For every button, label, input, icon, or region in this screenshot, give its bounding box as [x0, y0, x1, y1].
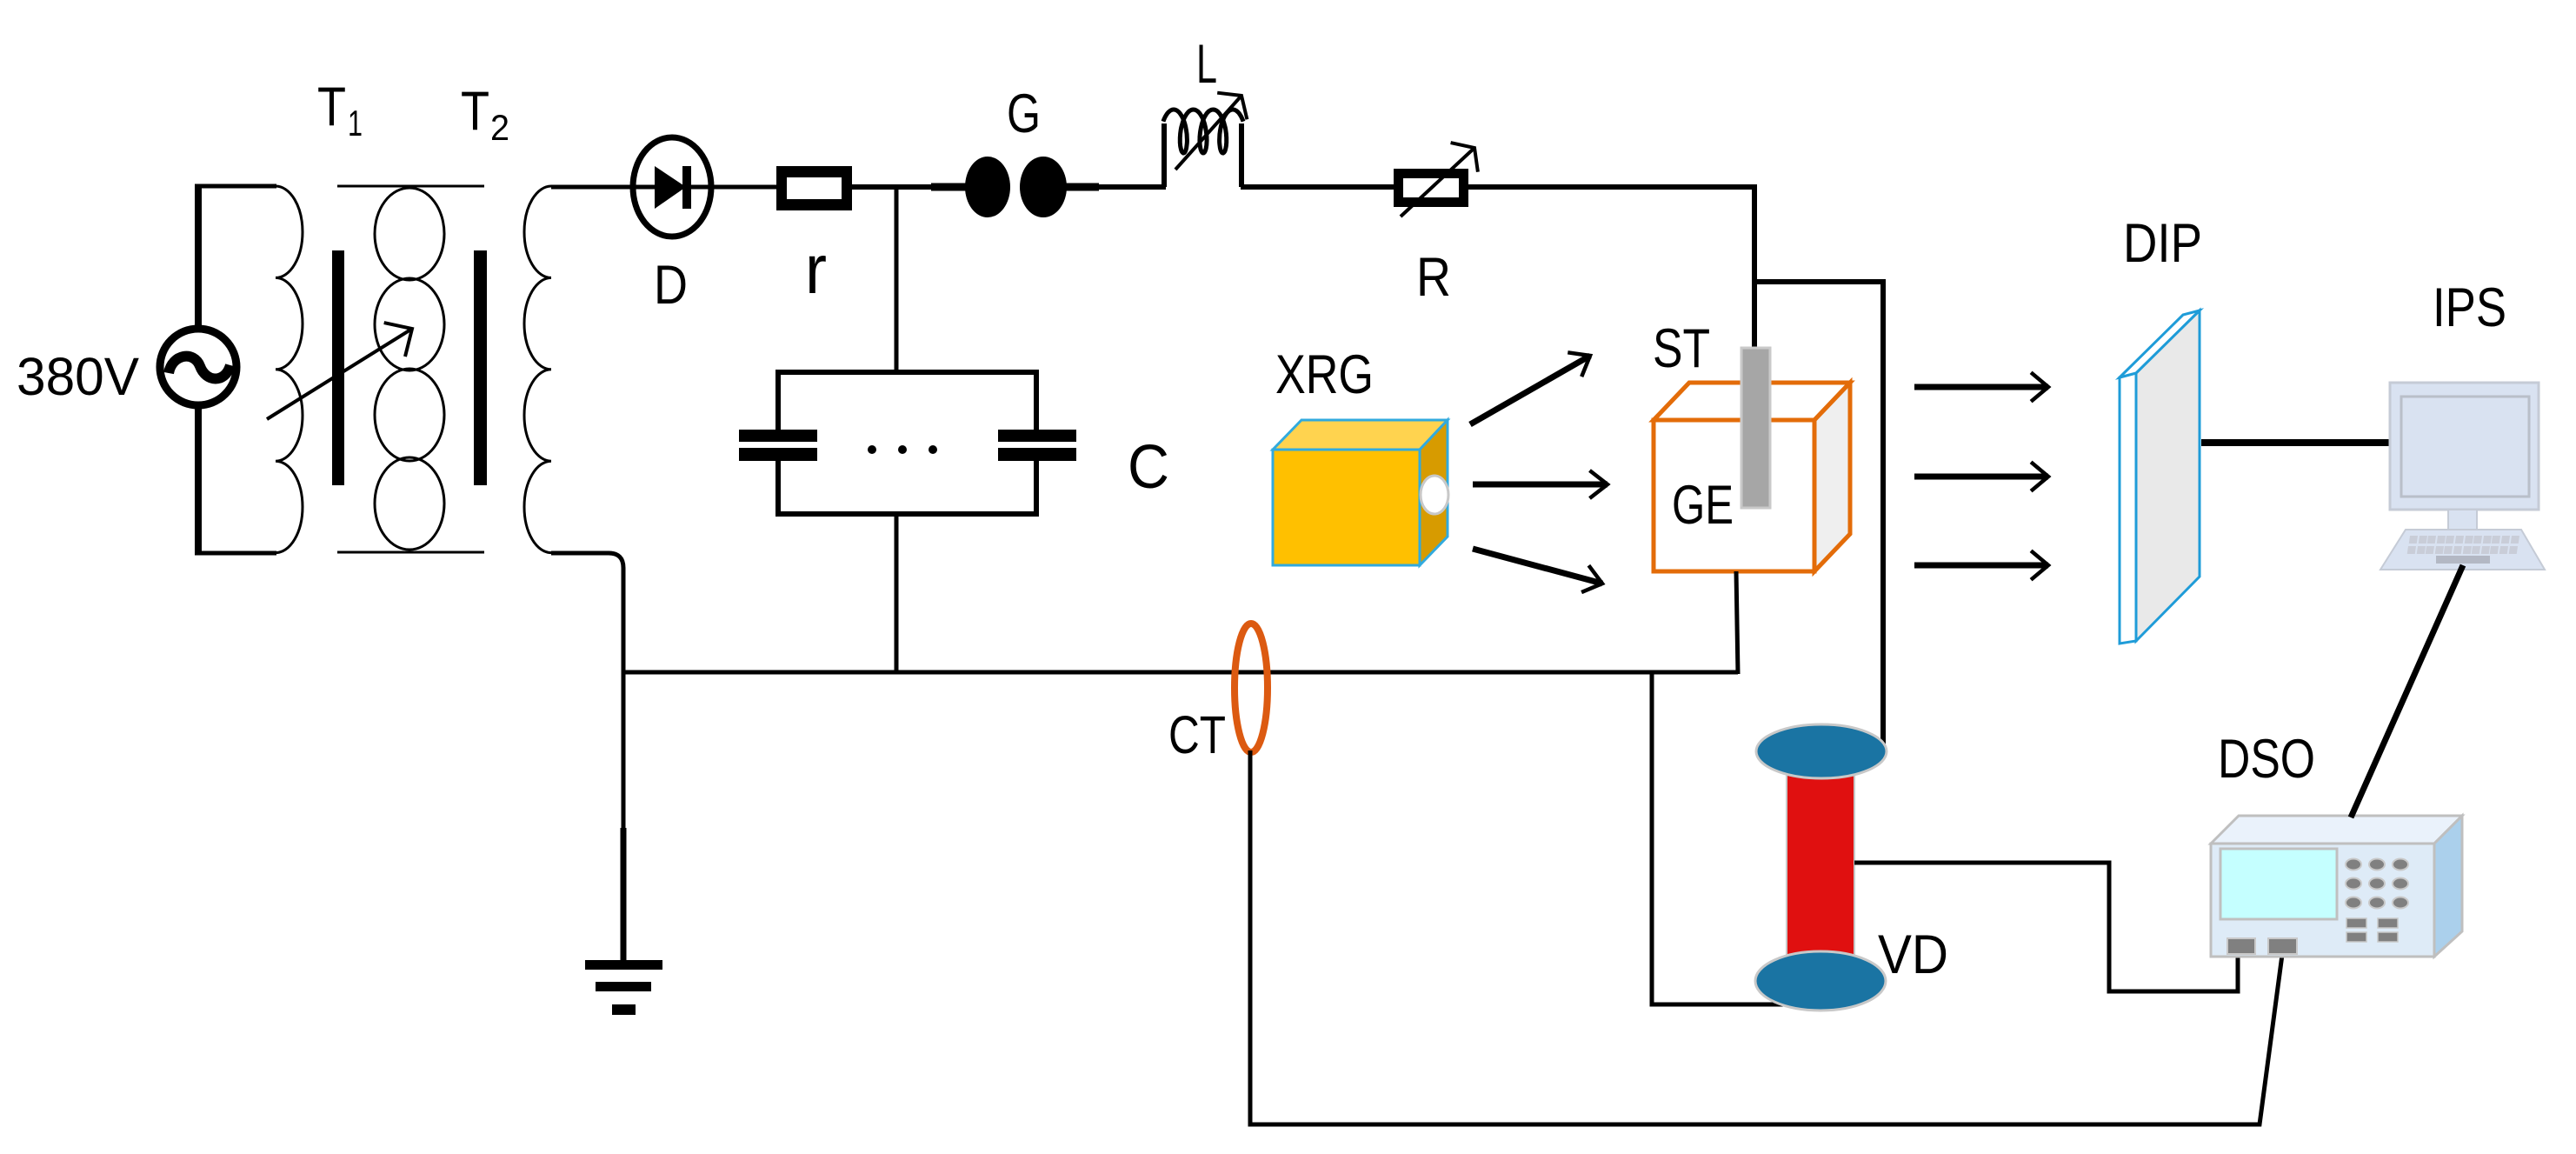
svg-text:L: L: [1196, 34, 1217, 95]
scattered x-ray arrow 3: [1914, 550, 2048, 579]
X-ray generator XRG front face: [1273, 450, 1420, 565]
DSO buttons: [2346, 859, 2361, 871]
wire: VD branch down: [1652, 672, 1821, 1004]
diode D triangle: [655, 166, 686, 209]
wire: capacitor bank to ground bus: [895, 514, 899, 672]
svg-text:GE: GE: [1672, 475, 1734, 536]
wire: R to ST electrode (top rail right): [1468, 187, 1754, 350]
svg-text:T: T: [317, 77, 346, 137]
spark gap G electrode 2: [1020, 157, 1067, 217]
transformer T1 primary winding: [276, 186, 303, 553]
inductor L right lead: [1239, 123, 1244, 187]
wire: L to resistor R: [1241, 184, 1395, 190]
svg-text:CT: CT: [1168, 705, 1226, 764]
capacitor Cn plates: [998, 430, 1076, 442]
svg-text:VD: VD: [1878, 924, 1948, 985]
IPS keyboard keys: [2409, 536, 2418, 544]
x-ray beam arrow upper: [1470, 352, 1590, 424]
svg-text:1: 1: [348, 103, 363, 143]
wire: T2 top to diode: [551, 185, 637, 190]
wire: DIP to IPS: [2201, 439, 2393, 446]
diode D cathode bar: [682, 166, 691, 209]
svg-text:T: T: [461, 81, 489, 142]
sample tank ST right face: [1814, 383, 1850, 571]
svg-text:G: G: [1007, 83, 1041, 144]
transformer middle winding coils: [375, 188, 444, 280]
computer IPS monitor: [2390, 383, 2539, 510]
oscilloscope DSO right face: [2434, 816, 2462, 957]
voltage divider VD bottom cap: [1755, 951, 1886, 1011]
X-ray generator XRG right face: [1420, 420, 1448, 565]
svg-text:IPS: IPS: [2433, 277, 2506, 338]
transformer T1 core bar: [332, 250, 344, 485]
DSO screen: [2220, 849, 2337, 919]
wire: VD tap to DSO channel 1: [1854, 863, 2238, 991]
wire: IPS to DSO: [2351, 565, 2463, 817]
svg-text:380V: 380V: [17, 347, 139, 406]
DSO BNC connector 2: [2268, 938, 2297, 954]
wire: T2 bottom to ground node: [551, 553, 623, 831]
wire: bottom jumper source to T1: [195, 551, 276, 556]
capacitor bank C outline bottom: [776, 511, 1039, 517]
diode D circle: [633, 137, 711, 237]
capacitor bank C outline top: [776, 370, 1039, 375]
svg-text:DSO: DSO: [2218, 729, 2315, 790]
AC source sine symbol: [169, 357, 230, 379]
capacitor C1 leads: [775, 370, 781, 431]
voltage divider VD body: [1787, 765, 1854, 955]
svg-text:R: R: [1416, 247, 1451, 308]
wire: ground bus horizontal: [622, 670, 1738, 675]
AC source 380V circle: [160, 329, 236, 405]
ellipsis dots between capacitors: [868, 445, 876, 454]
transformer T2 secondary winding: [524, 186, 551, 553]
wire: resistor r to spark gap G: [852, 184, 934, 190]
wire: branch to voltage divider: [1754, 282, 1883, 755]
capacitor Cn leads: [1034, 370, 1039, 431]
wire: top jumper source to T1: [195, 184, 276, 189]
wire: GE bottom to ground bus: [1736, 571, 1738, 674]
XRG window: [1421, 476, 1448, 514]
variable-resistor arrow through R: [1401, 143, 1478, 217]
x-ray beam arrow middle: [1473, 470, 1608, 498]
sample tank ST front face: [1654, 420, 1814, 571]
variable resistor R body: [1394, 169, 1468, 207]
voltage divider VD top cap: [1756, 724, 1887, 778]
inductor L left lead: [1162, 123, 1167, 187]
resistor r body: [776, 166, 852, 210]
current transformer CT ring: [1235, 624, 1268, 752]
electrode in ST: [1741, 348, 1770, 508]
DIP top edge: [2120, 310, 2200, 377]
inductor L coil: [1163, 110, 1243, 153]
spark gap G electrode 1: [965, 157, 1010, 217]
wire: ground stem (thick): [621, 828, 627, 962]
transformer middle winding bottom lead: [337, 551, 484, 554]
oscilloscope DSO front face: [2211, 844, 2434, 957]
scattered x-ray arrow 1: [1914, 372, 2048, 401]
svg-text:ST: ST: [1653, 318, 1710, 379]
variable-inductor arrow through L: [1175, 93, 1247, 170]
transformer T2 core bar: [474, 250, 487, 485]
wire: thick stub right of G: [1064, 183, 1099, 191]
variable-transformer arrow through T1: [267, 323, 412, 419]
wire through diode: [551, 185, 779, 190]
x-ray beam arrow lower: [1473, 549, 1602, 592]
wire: G to inductor L: [1099, 184, 1166, 190]
IPS keyboard: [2380, 530, 2545, 570]
capacitor C1 plates: [739, 430, 817, 442]
oscilloscope DSO top face: [2211, 816, 2462, 844]
svg-text:r: r: [805, 230, 827, 308]
image plate DIP face: [2136, 310, 2200, 641]
transformer middle winding (T1 secondary / T2 primary) top lead: [337, 185, 484, 188]
IPS screen: [2401, 397, 2529, 497]
wire: thick stub left of G: [931, 183, 967, 191]
scattered x-ray arrow 2: [1914, 462, 2048, 490]
svg-text:D: D: [654, 255, 688, 316]
svg-text:C: C: [1128, 433, 1169, 502]
DSO BNC connector 1: [2227, 938, 2255, 954]
IPS stand: [2448, 510, 2477, 530]
svg-text:DIP: DIP: [2123, 213, 2202, 274]
DIP left edge: [2120, 373, 2136, 644]
ground symbol: [585, 960, 662, 970]
sample tank ST top face: [1654, 383, 1850, 420]
node: junction to capacitor bank: [895, 187, 899, 374]
svg-text:2: 2: [490, 107, 509, 148]
DSO rectangular keys: [2346, 918, 2366, 928]
X-ray generator XRG top face: [1273, 420, 1448, 450]
wire: CT to DSO channel 2: [1250, 750, 2282, 1124]
svg-text:XRG: XRG: [1275, 344, 1374, 405]
wire: source vertical lead: [195, 184, 202, 555]
